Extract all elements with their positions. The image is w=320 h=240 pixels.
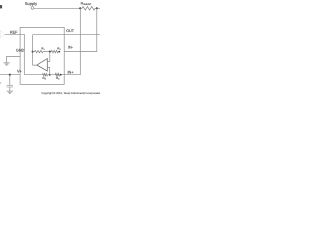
svg-text:IN-: IN- <box>68 46 74 50</box>
resistor R4 <box>55 74 59 76</box>
wire inverting input <box>47 52 50 62</box>
wire GND pin <box>7 56 21 63</box>
svg-text:Copyright © 2016, Texas Instru: Copyright © 2016, Texas Instruments Inco… <box>41 92 100 95</box>
junction shunt left <box>79 7 81 9</box>
junction output feedback <box>32 51 34 53</box>
svg-text:R2: R2 <box>57 47 61 52</box>
wire OUT rail <box>33 34 100 36</box>
terminal Supply <box>31 7 34 10</box>
wire bottom chain <box>24 74 64 76</box>
svg-text:RSHUNT: RSHUNT <box>81 2 92 7</box>
svg-text:REF: REF <box>10 30 18 34</box>
resistor R2 input <box>51 50 58 52</box>
wire supply bus <box>34 7 100 9</box>
wire V+ <box>0 74 20 76</box>
wire bypass cap top <box>9 75 11 86</box>
junction R4 right <box>60 74 62 76</box>
wire buffer input stubs <box>0 32 2 37</box>
svg-text:GND: GND <box>16 49 25 53</box>
wire REF <box>5 34 25 74</box>
op-amp A1 <box>37 59 48 71</box>
svg-text:R3: R3 <box>43 76 47 81</box>
resistor R1 feedback <box>35 50 43 52</box>
svg-text:Supply: Supply <box>25 1 37 6</box>
svg-text:OUT: OUT <box>66 29 75 33</box>
wire output node vertical <box>33 35 37 65</box>
junction V+ bypass <box>9 74 11 76</box>
capacitor bypass <box>7 85 13 87</box>
svg-text:R1: R1 <box>41 47 45 52</box>
resistor RSHUNT <box>82 7 95 11</box>
wire noninverting input <box>47 67 49 74</box>
ground bypass <box>7 91 13 93</box>
resistor R3 <box>43 74 48 76</box>
wire shunt right to IN- <box>64 8 97 51</box>
ground GND pin <box>4 63 10 65</box>
wire shunt left to IN+ <box>64 8 80 74</box>
junction R2 right <box>58 51 60 53</box>
wire bypass cap bottom <box>9 87 11 91</box>
IC box <box>20 27 64 84</box>
svg-text:IN+: IN+ <box>68 71 75 75</box>
svg-text:V+: V+ <box>17 69 23 73</box>
wire top chain <box>33 51 52 53</box>
junction noninverting node <box>49 74 51 76</box>
svg-text:R4: R4 <box>56 76 60 81</box>
node cropped left label <box>0 5 2 8</box>
op-amp REF buffer <box>0 30 4 38</box>
junction inverting node <box>49 51 51 53</box>
junction shunt right <box>96 7 98 9</box>
node cropped cap label <box>0 82 2 84</box>
